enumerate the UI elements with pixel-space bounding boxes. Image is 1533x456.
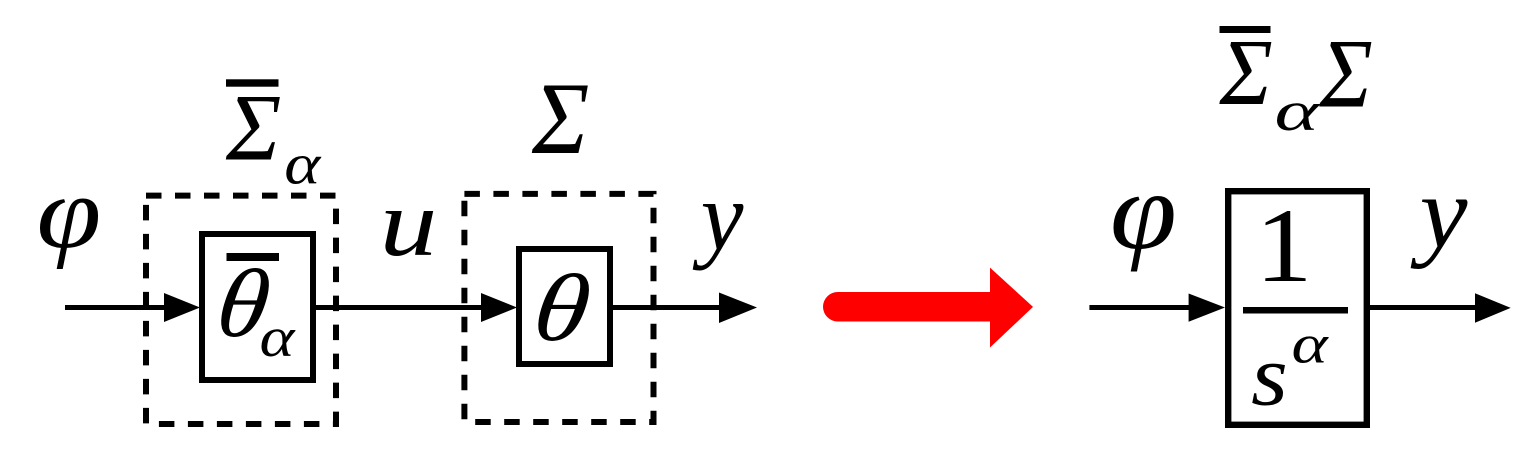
svg-text:α: α bbox=[284, 131, 322, 196]
block 3: 1/s^alpha box bbox=[1228, 191, 1367, 425]
arrowhead: output y arrow (left diagram) bbox=[719, 293, 757, 324]
overbar of theta-bar bbox=[227, 253, 280, 261]
svg-text:Σ: Σ bbox=[531, 61, 589, 176]
svg-text:Σ: Σ bbox=[1319, 20, 1373, 129]
overbar of right label Sigma-bar bbox=[1220, 26, 1271, 33]
red transformation arrow bbox=[823, 268, 1033, 348]
block 2: theta box bbox=[519, 249, 610, 364]
svg-text:s: s bbox=[1251, 327, 1288, 424]
svg-text:y: y bbox=[1410, 155, 1467, 269]
wire: input arrow shaft (right diagram) bbox=[1089, 305, 1191, 310]
arrowhead: u arrow into theta block bbox=[481, 293, 517, 322]
svg-text:α: α bbox=[1292, 315, 1330, 375]
svg-text:φ: φ bbox=[1110, 151, 1177, 273]
block 1: theta-bar_alpha box bbox=[202, 234, 313, 380]
overbar of Sigma-bar_alpha label bbox=[226, 79, 279, 86]
wire: input arrow shaft (left diagram) bbox=[65, 305, 168, 310]
svg-text:φ: φ bbox=[37, 156, 102, 270]
wire: output y shaft (left diagram) bbox=[610, 305, 721, 310]
svg-text:Σ: Σ bbox=[225, 76, 281, 181]
svg-text:α: α bbox=[260, 307, 297, 369]
fraction bar of 1/s^alpha bbox=[1243, 307, 1348, 314]
arrowhead: output y arrow (right diagram) bbox=[1475, 293, 1511, 323]
dashed boundary box Sigma (around theta block) bbox=[464, 194, 653, 422]
svg-text:u: u bbox=[380, 169, 438, 275]
dashed boundary box Sigma-bar_alpha (around theta-bar block) bbox=[146, 196, 336, 424]
svg-text:α: α bbox=[1275, 80, 1321, 142]
wire: output y shaft (right diagram) bbox=[1367, 305, 1477, 310]
arrowhead: input arrow into 1/s^alpha block bbox=[1189, 294, 1225, 322]
svg-text:Σ: Σ bbox=[1219, 20, 1273, 124]
wire: u signal shaft between blocks bbox=[313, 305, 483, 310]
arrowhead: input arrow into theta-bar block bbox=[164, 293, 200, 322]
svg-text:1: 1 bbox=[1255, 187, 1312, 304]
